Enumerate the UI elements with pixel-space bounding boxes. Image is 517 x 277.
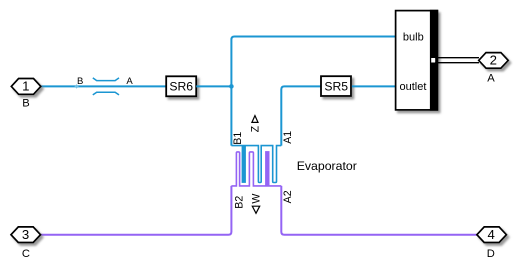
physical port square on block — [431, 58, 435, 63]
node marker (light diamond) on wire — [74, 84, 78, 88]
wire: SR6 to junction — [196, 85, 231, 87]
svg-text:4: 4 — [488, 227, 495, 242]
svg-text:B: B — [77, 76, 83, 87]
svg-text:B: B — [22, 98, 29, 110]
svg-text:SR6: SR6 — [169, 80, 193, 94]
svg-text:A: A — [126, 76, 133, 87]
port 1 hexagon — [11, 79, 41, 95]
port 4 hexagon — [477, 227, 507, 243]
svg-text:1: 1 — [22, 79, 29, 94]
svg-text:A: A — [487, 73, 495, 85]
wire: junction up and right to bulb port — [231, 37, 395, 146]
svg-text:B1: B1 — [232, 132, 244, 145]
svg-text:3: 3 — [22, 227, 29, 242]
svg-text:outlet: outlet — [400, 81, 427, 93]
svg-text:2: 2 — [490, 53, 497, 68]
junction dot — [229, 84, 234, 89]
svg-text:A1: A1 — [282, 131, 294, 144]
wire: port 3 to evaporator B2 — [40, 186, 231, 235]
evaporator label Z with triangle — [252, 116, 258, 123]
block SR5 — [321, 76, 351, 96]
evaporator: solid cyan tube — [242, 146, 246, 183]
wire: evaporator A2 to port 4 — [281, 186, 476, 235]
svg-text:bulb: bulb — [403, 31, 424, 43]
TXV subsystem block (bulb / outlet) — [396, 11, 438, 110]
svg-text:B2: B2 — [233, 196, 245, 209]
port 2 hexagon — [479, 53, 509, 69]
svg-text:Z: Z — [249, 125, 261, 132]
block SR6 — [166, 76, 196, 96]
evaporator: solid purple tube — [265, 151, 269, 186]
break symbol on wire — [93, 78, 119, 81]
svg-text:D: D — [487, 248, 495, 260]
svg-text:A2: A2 — [282, 190, 294, 203]
wire: port 1 to SR6 (two-phase fluid) — [41, 85, 166, 87]
port 3 hexagon — [11, 227, 41, 243]
evaporator: cyan circuit (top manifold with hanging tubes) — [231, 146, 281, 183]
physical connection double line to port 2 — [435, 57, 479, 59]
evaporator: purple circuit (bottom manifold with rising tubes) — [231, 152, 281, 186]
svg-text:Evaporator: Evaporator — [297, 159, 357, 173]
svg-text:SR5: SR5 — [324, 80, 348, 94]
svg-text:C: C — [22, 248, 30, 260]
wire: SR5 left, down to evaporator A1 — [281, 86, 321, 145]
wire: SR5 right to outlet port — [352, 85, 396, 87]
svg-text:W: W — [251, 194, 263, 204]
